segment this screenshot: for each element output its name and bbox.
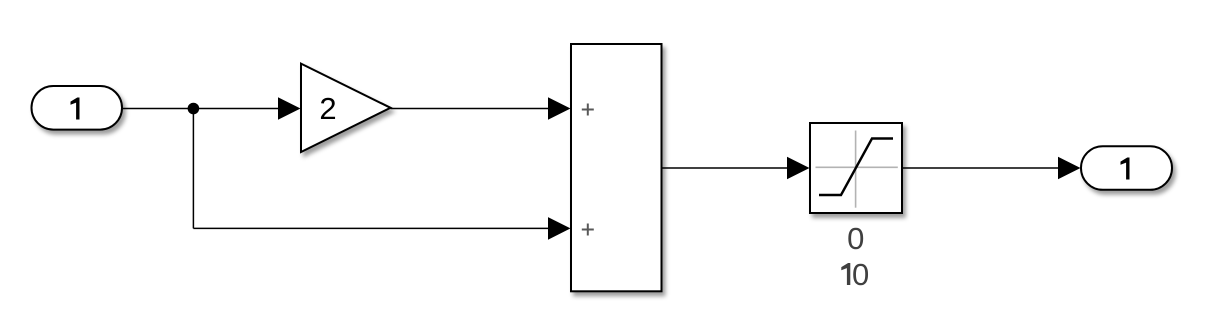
inport block 1 [32, 86, 123, 130]
arrowhead into sum input 2 [548, 217, 571, 240]
outport block 1 [1081, 146, 1172, 190]
junction dot [188, 103, 200, 115]
arrowhead into outport [1058, 157, 1081, 180]
wire junction down [192, 109, 194, 229]
svg-text:2: 2 [319, 91, 336, 126]
wire saturation output to outport [902, 167, 1059, 169]
wire gain output to sum input 1 [391, 108, 550, 110]
arrowhead into sum input 1 [548, 97, 571, 120]
svg-text:0: 0 [847, 221, 864, 256]
gain block value 2 [301, 64, 391, 152]
wire junction to gain input [194, 108, 279, 110]
wire sum output to saturation [662, 167, 789, 169]
sum plus sign input 1 [582, 104, 594, 116]
arrowhead into saturation [787, 157, 810, 180]
arrowhead into gain [278, 97, 301, 120]
sum block [571, 44, 662, 291]
wire lower branch to sum input 2 [193, 227, 549, 229]
wire inport to junction [122, 108, 194, 110]
saturation block [810, 123, 902, 213]
saturation label value 10 [841, 257, 869, 292]
sum plus sign input 2 [582, 224, 594, 236]
svg-text:0: 0 [852, 257, 869, 292]
